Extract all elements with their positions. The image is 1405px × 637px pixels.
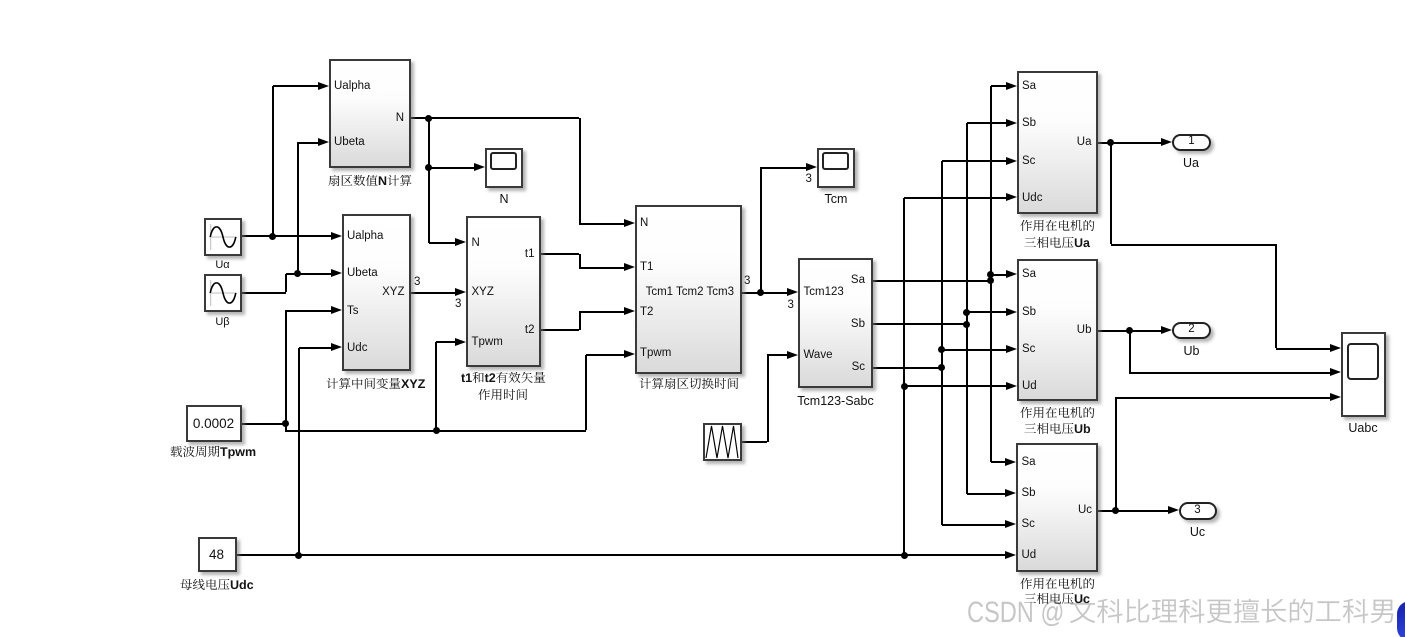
- wire Sa to motor Ub: [991, 274, 1007, 276]
- constant 0.0002: [186, 405, 243, 442]
- text T1: [640, 259, 653, 276]
- wire Sb bus: [966, 123, 968, 494]
- wire N down: [428, 118, 430, 243]
- wire t2 out: [541, 329, 580, 331]
- text XYZ: [472, 284, 494, 301]
- text N: [640, 215, 648, 232]
- wire Tpwm into B4: [586, 354, 625, 356]
- text N: [472, 235, 480, 252]
- wire Ub down: [1129, 331, 1131, 373]
- subsystem B4 switch times: [635, 205, 742, 374]
- text Udc: [347, 340, 367, 357]
- wire Tpwm to Ts input: [285, 310, 331, 312]
- wire Ub into scope: [1129, 372, 1331, 374]
- label B6 line2: [1024, 237, 1092, 255]
- text 48: [137, 545, 297, 565]
- arrowhead B8.Ud: [1005, 551, 1016, 559]
- wire Tpwm const out: [242, 423, 286, 425]
- text Ubeta: [347, 265, 378, 282]
- arrowhead B7.Sc: [1006, 345, 1017, 353]
- label const Udc: [180, 579, 256, 597]
- wire t2 into B4: [579, 311, 625, 313]
- junction Uc: [1112, 507, 1119, 514]
- text 2: [1112, 321, 1272, 338]
- outport 1: [1172, 134, 1211, 152]
- outport 3: [1179, 502, 1217, 520]
- text Ua: [1077, 134, 1092, 151]
- junction Sb A: [963, 321, 970, 328]
- text Uabc: [1283, 419, 1405, 437]
- text Ualpha: [347, 228, 383, 245]
- label B7 line2: [1024, 423, 1093, 441]
- arrowhead B8.Sa: [1005, 458, 1016, 466]
- text Sc: [1022, 516, 1035, 533]
- label B6 line1: [1020, 220, 1097, 238]
- label B8 line1: [1020, 578, 1097, 596]
- wire N out of sector block: [411, 117, 580, 119]
- wire into sector-N Ubeta: [297, 142, 318, 144]
- text Sa: [1022, 454, 1036, 471]
- text 3: [788, 297, 794, 314]
- wire XYZ: [411, 292, 457, 294]
- wire Tcm123: [742, 292, 788, 294]
- text Sa: [1022, 266, 1036, 283]
- text 3: [744, 273, 750, 290]
- text Sb: [1022, 115, 1036, 132]
- wire Udc to B2.Udc: [299, 347, 332, 349]
- junction Udc B: [901, 552, 908, 559]
- label B8 line2: [1024, 593, 1092, 611]
- text Ubeta: [334, 134, 365, 151]
- wire t1 jog: [579, 254, 581, 268]
- wire t1 out: [541, 253, 580, 255]
- arrowhead port2: [1161, 326, 1172, 334]
- text 0.0002: [134, 414, 294, 434]
- wire t2 jog: [579, 312, 581, 330]
- arrowhead B2.Ualpha: [331, 232, 342, 240]
- wire Sa bus: [990, 86, 992, 462]
- wire Udc bus up: [903, 198, 905, 555]
- text Uβ: [143, 315, 303, 331]
- text Ub: [1077, 322, 1092, 339]
- wire Sa to motor Uc: [991, 461, 1006, 463]
- constant 48: [198, 537, 237, 572]
- arrowhead B7.Ud: [1006, 382, 1017, 390]
- arrowhead B6.Sc: [1006, 157, 1017, 165]
- label B1: [328, 175, 415, 193]
- subsystem B3 t1 t2 times: [466, 216, 541, 368]
- wire Ualpha: sine Ua out to XYZ block: [242, 235, 332, 237]
- arrowhead B6.Udc: [1006, 193, 1017, 201]
- wire Sb to motor Uc: [967, 493, 1007, 495]
- wire Uc into scope: [1116, 397, 1331, 399]
- arrowhead B4.T2: [624, 307, 635, 315]
- arrowhead B7.Sb: [1006, 308, 1017, 316]
- arrowhead B4.Tpwm: [624, 350, 635, 358]
- wire into sector-N Ualpha: [273, 85, 319, 87]
- junction Sc A: [938, 364, 945, 371]
- wire Tcm to scope: [760, 167, 807, 169]
- wire Ubeta: sine Ub out: [242, 292, 286, 294]
- arrowhead scopeTcm: [806, 163, 817, 171]
- text Sc: [1022, 153, 1035, 170]
- wire N into B4: [579, 223, 625, 225]
- subsystem B1 sector number N: [329, 59, 411, 168]
- outport 2: [1172, 322, 1211, 340]
- junction Ub: [1126, 327, 1133, 334]
- blue corner logo: [1397, 601, 1405, 637]
- wire Sc bus: [941, 161, 943, 525]
- arrowhead B7.Sa: [1006, 270, 1017, 278]
- wire Ua into scope: [1276, 348, 1331, 350]
- junction Udc A: [295, 552, 302, 559]
- text 3: [806, 171, 812, 188]
- wire Ubeta branch up: [297, 143, 299, 274]
- wire Tpwm down jog: [285, 423, 287, 430]
- text N: [424, 190, 584, 208]
- text 1: [1112, 133, 1272, 150]
- text 3: [414, 274, 420, 291]
- wire Udc into motor-Ub block: [904, 385, 1007, 387]
- text Tcm1 Tcm2 Tcm3: [646, 284, 734, 301]
- text Uc: [1118, 523, 1278, 541]
- label const Tpwm: [170, 446, 259, 464]
- arrowhead port3: [1168, 506, 1179, 514]
- arrowhead B6.Sb: [1006, 119, 1017, 127]
- text T2: [640, 304, 653, 321]
- wire Ualpha branch up: [272, 86, 274, 236]
- watermark CSDN: [967, 598, 1067, 637]
- junction Tpwm B: [433, 427, 440, 434]
- junction Tpwm A: [282, 420, 289, 427]
- arrowhead B2.Ubeta: [331, 269, 342, 277]
- wire Sa out: [873, 280, 991, 282]
- subsystem B6 motor phase Ua: [1017, 71, 1098, 214]
- junction Ua: [1107, 139, 1114, 146]
- sine wave source Ub: [204, 274, 242, 312]
- label B7 line1: [1020, 407, 1097, 425]
- arrowhead B6.Sa: [1006, 82, 1017, 90]
- scope Uabc: [1341, 332, 1386, 417]
- arrowhead Uabc.3: [1330, 393, 1341, 401]
- text Wave: [804, 347, 833, 364]
- text N: [396, 110, 404, 127]
- wire Ua down: [1110, 143, 1112, 245]
- text Sc: [852, 359, 865, 376]
- text Ua: [1111, 154, 1271, 172]
- text Sa: [1022, 78, 1036, 95]
- wire Tpwm run right 2: [436, 430, 586, 432]
- junction Ubeta: [294, 270, 301, 277]
- wire Sc to motor Uc: [942, 524, 1006, 526]
- text Tcm123: [804, 284, 844, 301]
- wire wave out: [742, 441, 767, 443]
- scope N: [485, 148, 523, 188]
- arrowhead B1.Ualpha: [318, 82, 329, 90]
- wire Ua right: [1111, 244, 1277, 246]
- arrowhead B3.N: [455, 238, 466, 246]
- triangle wave source: [703, 423, 742, 461]
- wire Udc into motor-Uc block: [904, 554, 1006, 556]
- wire wave up: [767, 355, 769, 442]
- wire Tcm up to scope: [760, 167, 762, 292]
- arrowhead B8.Sc: [1005, 520, 1016, 528]
- junction Sa A: [987, 277, 994, 284]
- subsystem B2 intermediate XYZ: [342, 214, 411, 371]
- wire t1 into B4: [579, 267, 625, 269]
- wire Tpwm into t1t2: [436, 341, 456, 343]
- arrowhead B4.T1: [624, 263, 635, 271]
- scope Tcm: [817, 148, 855, 188]
- arrowhead B8.Sb: [1005, 489, 1016, 497]
- text Ts: [347, 303, 359, 320]
- wire Sa to motor Ua: [991, 85, 1007, 87]
- text XYZ: [382, 284, 404, 301]
- wire wave into B5: [767, 354, 788, 356]
- wire Ubeta to XYZ block: [286, 273, 332, 275]
- junction Ualpha: [269, 233, 276, 240]
- text t1: [525, 246, 535, 263]
- sine wave source Ua: [204, 218, 242, 256]
- junction Tcm: [757, 289, 764, 296]
- wire Sc to motor Ua: [942, 160, 1007, 162]
- text Ud: [1022, 378, 1037, 395]
- arrowhead B3.XYZ: [455, 288, 466, 296]
- text 3: [455, 296, 461, 313]
- arrowhead port1: [1161, 138, 1172, 146]
- text Tpwm: [640, 345, 671, 362]
- wire Ub out: [1098, 330, 1163, 332]
- wire Sc to motor Ub: [942, 349, 1007, 351]
- wire Tpwm up to Ts: [285, 311, 287, 424]
- text Uα: [143, 258, 303, 274]
- arrowhead scopeN: [474, 163, 485, 171]
- wire Sb to motor Ub: [967, 311, 1007, 313]
- wire Tpwm up to B4: [585, 355, 587, 431]
- wire Udc 48 run: [237, 554, 905, 556]
- arrowhead B2.Ts: [331, 306, 342, 314]
- text Sb: [851, 316, 865, 333]
- wire Uc up: [1115, 397, 1117, 510]
- label B3 line1: [461, 372, 548, 390]
- arrowhead B3.Tpwm: [455, 338, 466, 346]
- wire Ua down 2: [1275, 244, 1277, 348]
- arrowhead B4.N: [624, 219, 635, 227]
- text Tcm: [756, 190, 916, 208]
- arrowhead Uabc.1: [1330, 344, 1341, 352]
- text Uc: [1078, 502, 1092, 519]
- arrowhead B5.Wave: [787, 351, 798, 359]
- text Tpwm: [472, 334, 503, 351]
- wire Uc out: [1098, 510, 1169, 512]
- junction N B: [425, 164, 432, 171]
- subsystem B8 motor phase Uc: [1016, 443, 1098, 572]
- label B3 line2: [478, 389, 530, 407]
- label B2: [326, 378, 428, 396]
- wire Sb to motor Ua: [967, 122, 1007, 124]
- wire Udc into motor-Ua block: [904, 197, 1007, 199]
- junction Udc C: [901, 383, 908, 390]
- subsystem B7 motor phase Ub: [1017, 259, 1098, 402]
- junction N A: [425, 115, 432, 122]
- wire N down to B4: [579, 118, 581, 224]
- subsystem B5 Tcm123-Sabc: [798, 258, 873, 388]
- text Sb: [1022, 304, 1036, 321]
- text Sa: [851, 272, 865, 289]
- junction Sb B: [963, 309, 970, 316]
- arrowhead Uabc.2: [1330, 368, 1341, 376]
- wire N to scope: [429, 167, 475, 169]
- text Ud: [1022, 547, 1037, 564]
- text 3: [1118, 502, 1278, 519]
- text Tcm123-Sabc: [756, 392, 916, 410]
- arrowhead B1.Ubeta: [318, 138, 329, 146]
- arrowhead B5.Tcm123: [787, 288, 798, 296]
- junction Sa B: [987, 271, 994, 278]
- text Sb: [1022, 485, 1036, 502]
- text t2: [525, 322, 535, 339]
- text Sc: [1022, 341, 1035, 358]
- text Udc: [1022, 190, 1042, 207]
- wire N to t1t2: [429, 242, 456, 244]
- wire Sb out: [873, 323, 966, 325]
- wire Tpwm up to t1t2: [435, 342, 437, 430]
- text Ualpha: [334, 78, 370, 95]
- wire Sc out: [873, 367, 941, 369]
- arrowhead B2.Udc: [331, 343, 342, 351]
- junction Sc B: [938, 346, 945, 353]
- wire Udc up to XYZ: [298, 348, 300, 555]
- wire Ua out: [1098, 142, 1163, 144]
- wire Ubeta jog up: [285, 274, 287, 293]
- label B4: [639, 378, 741, 396]
- text Ub: [1112, 342, 1272, 360]
- wire Tpwm run right: [285, 430, 436, 432]
